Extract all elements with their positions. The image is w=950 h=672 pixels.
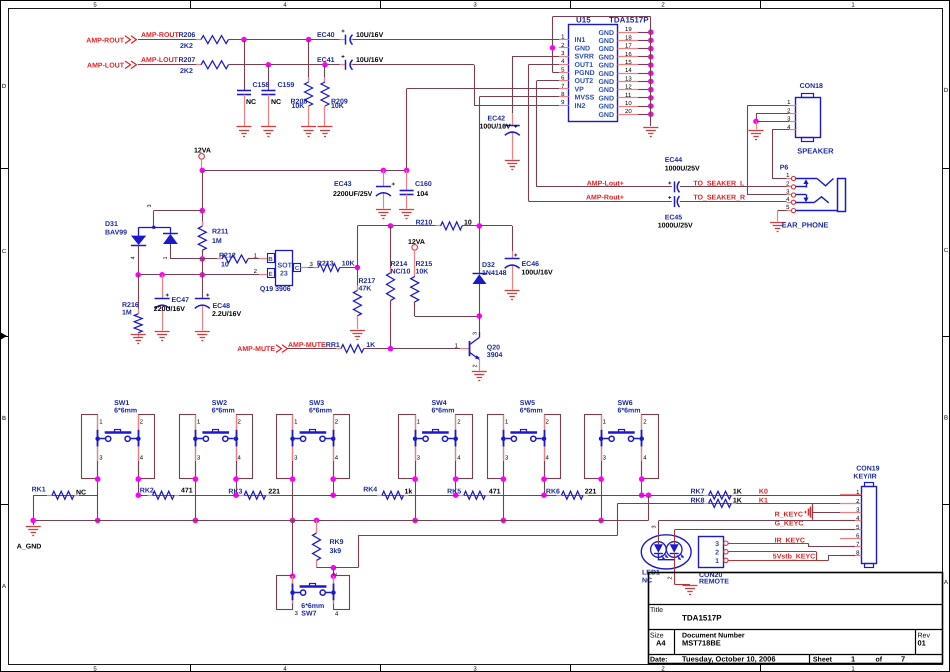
svg-text:6*6mm: 6*6mm — [520, 408, 543, 415]
svg-text:G_KEYC: G_KEYC — [775, 521, 804, 528]
svg-text:1K: 1K — [366, 342, 375, 349]
svg-text:B: B — [944, 415, 948, 422]
svg-text:RK8: RK8 — [691, 498, 705, 505]
svg-text:EC48: EC48 — [213, 303, 231, 310]
svg-text:10K: 10K — [331, 103, 344, 110]
svg-text:16: 16 — [625, 51, 632, 58]
svg-text:GND: GND — [575, 45, 591, 52]
svg-text:D: D — [2, 83, 7, 90]
svg-text:2K2: 2K2 — [180, 68, 193, 75]
svg-text:VP: VP — [575, 86, 585, 93]
svg-text:TDA1517P: TDA1517P — [682, 613, 722, 622]
svg-text:of: of — [876, 656, 883, 664]
svg-text:BAV99: BAV99 — [105, 230, 127, 237]
svg-text:RK1: RK1 — [32, 487, 46, 494]
svg-text:10U/16V: 10U/16V — [356, 56, 384, 64]
svg-text:1K: 1K — [733, 489, 742, 496]
svg-text:2200UF/25V: 2200UF/25V — [333, 190, 373, 198]
svg-text:+: + — [392, 182, 396, 188]
svg-text:C159: C159 — [278, 82, 295, 89]
svg-text:GND: GND — [598, 63, 614, 70]
svg-text:TO_SEAKER_R: TO_SEAKER_R — [693, 194, 745, 201]
svg-text:Q19 3906: Q19 3906 — [260, 286, 291, 293]
svg-text:EC40: EC40 — [317, 32, 335, 39]
svg-text:10K: 10K — [342, 260, 355, 267]
svg-text:+: + — [341, 54, 345, 60]
svg-text:SW7: SW7 — [301, 611, 316, 618]
svg-text:SW5: SW5 — [520, 400, 535, 407]
svg-text:CON18: CON18 — [800, 83, 823, 90]
svg-text:GND: GND — [598, 30, 614, 37]
svg-text:SW3: SW3 — [309, 400, 324, 407]
svg-text:EC43: EC43 — [334, 181, 352, 188]
svg-text:104: 104 — [417, 191, 429, 198]
svg-text:GND: GND — [598, 46, 614, 53]
svg-text:NC: NC — [271, 99, 281, 106]
svg-text:EC42: EC42 — [488, 116, 506, 123]
svg-text:EAR_PHONE: EAR_PHONE — [782, 220, 829, 229]
svg-text:RK4: RK4 — [363, 487, 377, 494]
svg-text:+: + — [166, 293, 170, 299]
svg-text:01: 01 — [918, 639, 926, 648]
svg-text:D: D — [944, 87, 949, 94]
svg-text:C: C — [2, 248, 7, 255]
svg-text:2.2U/16V: 2.2U/16V — [212, 310, 242, 318]
svg-text:11: 11 — [625, 92, 632, 99]
svg-text:RK2: RK2 — [140, 488, 154, 495]
svg-text:+: + — [668, 196, 672, 202]
svg-text:MVSS: MVSS — [575, 95, 595, 102]
svg-text:MST718BE: MST718BE — [682, 639, 721, 648]
svg-text:A_GND: A_GND — [17, 544, 42, 551]
svg-text:D31: D31 — [105, 221, 118, 228]
svg-text:19: 19 — [625, 26, 632, 33]
svg-text:K1: K1 — [759, 498, 768, 505]
svg-text:18: 18 — [625, 34, 632, 41]
svg-text:10K: 10K — [292, 103, 305, 110]
svg-text:SVRR: SVRR — [575, 54, 594, 61]
svg-text:IR_KEYC: IR_KEYC — [775, 538, 805, 545]
svg-text:+: + — [341, 29, 345, 35]
svg-text:1M: 1M — [212, 238, 222, 245]
svg-text:Q20: Q20 — [487, 345, 500, 352]
svg-text:GND: GND — [598, 95, 614, 102]
svg-text:RK6: RK6 — [546, 488, 560, 495]
svg-text:R213: R213 — [317, 260, 334, 267]
svg-text:RK9: RK9 — [330, 539, 344, 546]
svg-text:3: 3 — [715, 541, 719, 548]
svg-text:6*6mm: 6*6mm — [309, 408, 332, 415]
svg-text:3: 3 — [473, 332, 479, 335]
svg-text:2: 2 — [668, 576, 674, 579]
svg-text:1k: 1k — [405, 487, 413, 495]
svg-text:B: B — [268, 256, 273, 263]
svg-text:10: 10 — [625, 100, 632, 107]
svg-text:3k9: 3k9 — [330, 547, 342, 555]
svg-text:NC: NC — [76, 490, 86, 497]
svg-text:SW1: SW1 — [114, 400, 129, 407]
svg-text:R206: R206 — [179, 32, 196, 39]
svg-text:15: 15 — [625, 59, 632, 66]
svg-text:P6: P6 — [780, 165, 789, 172]
svg-text:1M: 1M — [122, 310, 132, 317]
svg-text:1: 1 — [163, 256, 169, 259]
svg-text:6*6mm: 6*6mm — [301, 603, 324, 610]
svg-text:GND: GND — [598, 38, 614, 45]
svg-text:C158: C158 — [253, 82, 270, 89]
svg-text:R_KEYC: R_KEYC — [775, 512, 803, 519]
svg-text:3904: 3904 — [487, 352, 503, 359]
svg-text:1N4148: 1N4148 — [482, 270, 507, 277]
svg-text:SW6: SW6 — [618, 400, 633, 407]
svg-text:100U/16V: 100U/16V — [522, 269, 553, 277]
svg-text:220U/16V: 220U/16V — [154, 305, 185, 313]
svg-text:20: 20 — [625, 108, 632, 115]
svg-text:+: + — [206, 293, 210, 299]
svg-text:EC46: EC46 — [522, 261, 540, 268]
svg-text:GND: GND — [598, 87, 614, 94]
svg-text:6*6mm: 6*6mm — [618, 408, 641, 415]
svg-text:AMP-ROUT: AMP-ROUT — [141, 32, 179, 39]
svg-text:E: E — [269, 271, 273, 278]
svg-text:4: 4 — [131, 256, 137, 259]
svg-text:R215: R215 — [416, 261, 433, 268]
svg-text:GND: GND — [598, 79, 614, 86]
svg-text:10: 10 — [464, 220, 472, 227]
svg-text:+: + — [514, 125, 518, 131]
svg-text:A4: A4 — [656, 639, 666, 648]
svg-text:2: 2 — [333, 572, 339, 575]
svg-text:EC47: EC47 — [172, 297, 190, 304]
svg-text:10U/16V: 10U/16V — [356, 31, 384, 39]
svg-text:471: 471 — [181, 488, 193, 495]
svg-text:SPEAKER: SPEAKER — [797, 146, 834, 155]
svg-text:R217: R217 — [359, 278, 376, 285]
svg-text:IN1: IN1 — [575, 37, 586, 44]
svg-text:NC: NC — [246, 99, 256, 106]
svg-text:+: + — [668, 181, 672, 187]
svg-text:SOT: SOT — [278, 263, 293, 270]
svg-text:GND: GND — [598, 112, 614, 119]
svg-text:10K: 10K — [416, 268, 429, 275]
svg-text:C: C — [944, 247, 949, 254]
svg-text:NC: NC — [642, 578, 652, 585]
svg-text:Date:: Date: — [650, 657, 668, 664]
svg-text:7: 7 — [901, 655, 905, 664]
svg-text:GND: GND — [598, 104, 614, 111]
svg-text:EC44: EC44 — [665, 157, 683, 164]
svg-text:1K: 1K — [733, 498, 742, 505]
svg-text:47K: 47K — [359, 286, 372, 293]
svg-text:6*6mm: 6*6mm — [432, 408, 455, 415]
svg-text:1: 1 — [851, 655, 855, 664]
svg-text:Title: Title — [650, 606, 663, 614]
svg-text:3: 3 — [652, 525, 658, 528]
svg-text:AMP-LOUT: AMP-LOUT — [141, 57, 179, 64]
svg-text:6*6mm: 6*6mm — [212, 408, 235, 415]
svg-text:221: 221 — [268, 489, 280, 496]
svg-text:1: 1 — [715, 558, 719, 565]
svg-text:GND: GND — [598, 71, 614, 78]
svg-text:C: C — [295, 265, 300, 272]
svg-text:IN2: IN2 — [575, 103, 586, 110]
svg-text:EC45: EC45 — [665, 214, 683, 221]
svg-text:PGND: PGND — [575, 70, 595, 77]
svg-text:2: 2 — [473, 364, 479, 367]
svg-text:AMP-LOUT: AMP-LOUT — [87, 63, 125, 70]
svg-text:REMOTE: REMOTE — [699, 578, 729, 585]
svg-text:AMP-Lout+: AMP-Lout+ — [587, 180, 624, 187]
svg-text:A: A — [2, 583, 6, 590]
svg-text:D32: D32 — [482, 262, 495, 269]
svg-text:A: A — [944, 579, 948, 586]
svg-text:12: 12 — [625, 84, 632, 91]
svg-text:R207: R207 — [179, 57, 196, 64]
svg-text:221: 221 — [585, 488, 597, 495]
svg-text:R212: R212 — [219, 252, 236, 259]
svg-text:SW4: SW4 — [432, 400, 447, 407]
svg-text:AMP-ROUT: AMP-ROUT — [86, 37, 124, 44]
svg-text:1000U/25V: 1000U/25V — [665, 165, 700, 173]
svg-text:RK3: RK3 — [228, 489, 242, 496]
svg-text:Tuesday, October 10, 2006: Tuesday, October 10, 2006 — [682, 655, 776, 664]
svg-text:6*6mm: 6*6mm — [114, 408, 137, 415]
svg-text:OUT1: OUT1 — [575, 62, 594, 69]
svg-text:R211: R211 — [212, 229, 228, 236]
svg-text:B: B — [2, 415, 6, 422]
svg-text:SW2: SW2 — [212, 400, 227, 407]
svg-text:KEY/IR: KEY/IR — [853, 473, 876, 481]
svg-text:AMP-MUTE: AMP-MUTE — [237, 346, 275, 353]
svg-text:17: 17 — [625, 43, 632, 50]
svg-text:10: 10 — [221, 262, 229, 269]
svg-text:23: 23 — [280, 271, 288, 278]
svg-text:RK7: RK7 — [691, 489, 705, 496]
svg-text:1000U/25V: 1000U/25V — [658, 222, 693, 230]
svg-text:NC/10: NC/10 — [391, 267, 411, 275]
svg-text:OUT2: OUT2 — [575, 78, 594, 85]
svg-text:5Vstb_KEYC: 5Vstb_KEYC — [773, 552, 815, 560]
svg-text:100U/16V: 100U/16V — [480, 123, 511, 131]
svg-text:AMP-Rout+: AMP-Rout+ — [586, 194, 624, 201]
svg-text:3: 3 — [147, 204, 153, 207]
svg-text:CON19: CON19 — [856, 466, 879, 473]
svg-text:2: 2 — [715, 549, 719, 556]
svg-text:Sheet: Sheet — [813, 656, 833, 664]
svg-text:13: 13 — [625, 75, 632, 82]
svg-text:R214: R214 — [391, 261, 408, 268]
svg-text:2K2: 2K2 — [180, 43, 193, 50]
svg-text:C160: C160 — [415, 181, 432, 188]
svg-text:RK5: RK5 — [447, 488, 461, 495]
svg-text:14: 14 — [625, 67, 632, 74]
svg-text:K0: K0 — [759, 489, 768, 496]
svg-text:471: 471 — [489, 488, 501, 495]
svg-text:R216: R216 — [122, 302, 139, 309]
svg-text:GND: GND — [598, 54, 614, 61]
svg-text:R210: R210 — [416, 220, 433, 227]
